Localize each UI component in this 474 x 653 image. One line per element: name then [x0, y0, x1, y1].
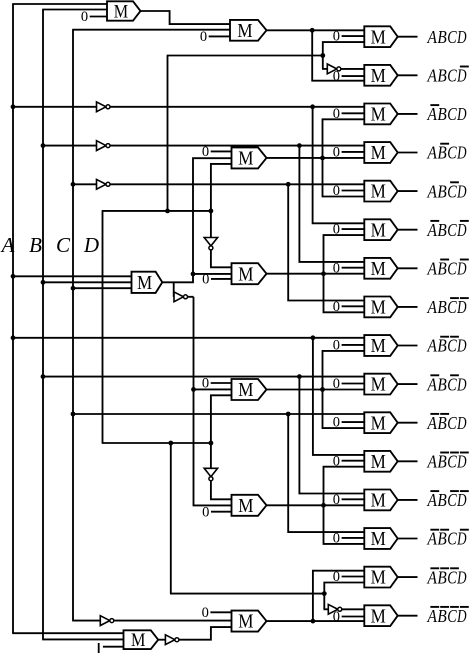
svg-text:0: 0 — [333, 260, 340, 276]
svg-text:0: 0 — [333, 415, 340, 431]
wire input bus D — [102, 211, 104, 443]
node output label 1 (ABCD) — [427, 27, 467, 47]
node M5 output junction — [320, 387, 325, 392]
majority gate M1 — [107, 1, 141, 22]
wire output U10 — [398, 383, 418, 385]
wire A branch — [13, 337, 364, 339]
svg-text:M: M — [238, 149, 253, 170]
label 0 input U12 — [333, 453, 365, 469]
wire A to M8 — [12, 632, 123, 634]
wire D up to M3 — [211, 164, 232, 211]
svg-text:C: C — [447, 27, 457, 47]
node output label 7 (ABCD-bar-BD) — [427, 259, 469, 279]
majority gate M5 — [232, 379, 267, 401]
wire majbar down to M6 — [194, 389, 232, 505]
wire M7 up to U15 — [313, 571, 364, 621]
wire D down to inverter N6 — [210, 211, 212, 238]
svg-text:D: D — [83, 233, 99, 257]
majority gate U2 — [364, 65, 397, 87]
node C branch junction — [286, 412, 291, 417]
svg-text:M: M — [371, 298, 386, 319]
svg-text:0: 0 — [200, 29, 207, 45]
svg-text:M: M — [114, 2, 128, 22]
svg-text:0: 0 — [333, 106, 340, 122]
svg-text:A: A — [427, 374, 438, 394]
svg-text:C: C — [447, 259, 457, 279]
label 0 input M2 — [200, 29, 230, 45]
svg-text:D: D — [456, 606, 466, 626]
wire maj to inverter N5 — [173, 282, 175, 297]
label 0 input U5 — [333, 183, 365, 199]
node B branch junction — [297, 374, 302, 379]
svg-text:0: 0 — [202, 605, 209, 621]
svg-text:D: D — [456, 181, 466, 201]
svg-text:D: D — [456, 259, 466, 279]
svg-text:M: M — [371, 606, 386, 627]
wire AB-bar to M7 — [179, 627, 232, 640]
wire output U15 — [398, 576, 418, 578]
node output label 12 (ABCD-bar-BCD) — [427, 452, 469, 472]
svg-text:M: M — [371, 491, 386, 512]
wire D down to inverter N4 — [322, 56, 327, 69]
svg-text:M: M — [371, 27, 386, 48]
wire output U1 — [398, 36, 418, 38]
svg-text:D: D — [456, 452, 466, 472]
svg-text:A: A — [427, 143, 438, 163]
wire output U14 — [398, 538, 418, 540]
svg-text:D: D — [456, 220, 466, 240]
svg-text:C: C — [447, 336, 457, 356]
wire input bus A — [12, 4, 107, 633]
label 0 input M1 — [81, 9, 107, 25]
majority gate U8 — [364, 297, 397, 319]
svg-text:C: C — [447, 220, 457, 240]
svg-text:D: D — [456, 143, 466, 163]
node maj junction — [191, 272, 196, 277]
wire N1 out — [110, 106, 364, 108]
wire N3 out — [110, 183, 364, 185]
svg-text:A: A — [427, 66, 438, 86]
node output label 9 (ABCD-bar-BC) — [427, 336, 467, 356]
inverter N2 (B-bar) — [97, 141, 111, 151]
wire D-bar to M6 top — [211, 481, 232, 500]
svg-text:C: C — [447, 452, 457, 472]
label 0 input M4 — [202, 272, 231, 288]
svg-text:0: 0 — [333, 338, 340, 354]
svg-text:M: M — [371, 336, 386, 357]
node output label 4 (ABCD-bar-B) — [427, 143, 467, 163]
svg-text:B: B — [437, 413, 446, 433]
wire M6 up branch — [324, 467, 365, 506]
svg-text:M: M — [238, 496, 253, 517]
majority gate M6 — [232, 495, 267, 517]
wire M3 down branch — [323, 158, 365, 197]
wire M6 output — [267, 504, 365, 506]
node output label 16 (ABCD-bar-ABCD) — [427, 606, 469, 626]
wire M3 output — [267, 157, 365, 159]
node majbar junction at M5 — [191, 387, 196, 392]
svg-text:C: C — [447, 66, 457, 86]
svg-text:A: A — [427, 181, 438, 201]
svg-text:B: B — [437, 374, 446, 394]
wire output U8 — [398, 306, 418, 308]
svg-text:B: B — [437, 529, 446, 549]
svg-text:M: M — [371, 105, 386, 126]
svg-text:0: 0 — [333, 531, 340, 547]
svg-text:M: M — [371, 143, 386, 164]
wire M8 output — [158, 639, 165, 641]
wire M4 output — [267, 273, 365, 275]
svg-text:0: 0 — [333, 299, 340, 315]
wire D down to inverter N7 — [210, 443, 212, 468]
svg-text:C: C — [447, 143, 457, 163]
svg-text:A: A — [427, 529, 438, 549]
wire maj input — [73, 287, 132, 289]
svg-text:B: B — [437, 297, 446, 317]
wire output U9 — [398, 345, 418, 347]
node maj input tap — [11, 274, 16, 279]
node M4 output junction — [321, 271, 326, 276]
node N2 tap — [41, 143, 46, 148]
node output label 14 (ABCD-bar-ABD) — [427, 529, 469, 549]
svg-text:B: B — [437, 567, 446, 587]
svg-text:0: 0 — [202, 504, 209, 520]
node B input label — [29, 233, 42, 257]
label 0 input M7 — [202, 605, 232, 621]
node M3 output junction — [320, 156, 325, 161]
svg-text:0: 0 — [333, 492, 340, 508]
svg-text:B: B — [437, 336, 446, 356]
node output label 11 (ABCD-bar-AB) — [427, 413, 467, 433]
svg-text:D: D — [456, 413, 466, 433]
wire D-bar to M4 top — [211, 250, 232, 267]
wire B branch — [43, 376, 364, 378]
wire M1 output to M2 — [141, 11, 231, 24]
label 0 input U14 — [333, 531, 365, 547]
wire D to U1 — [323, 42, 365, 55]
wire output U7 — [398, 267, 418, 269]
node C lower tap — [71, 412, 76, 417]
wire D up to M5 — [211, 395, 232, 443]
inverter N1 (A-bar) — [97, 102, 111, 112]
wire C branch — [73, 413, 364, 415]
node N3 branch — [286, 182, 291, 187]
label 0 input U6 — [333, 222, 365, 238]
svg-text:B: B — [437, 490, 446, 510]
svg-text:C: C — [447, 181, 457, 201]
svg-text:M: M — [238, 612, 253, 633]
svg-text:A: A — [427, 104, 438, 124]
inverter N6 (D-bar for M4) — [204, 238, 217, 250]
svg-text:D: D — [456, 567, 466, 587]
label 0 input M5 — [202, 376, 232, 392]
node D side junction top — [209, 209, 214, 214]
node B lower tap — [41, 374, 46, 379]
wire C down to gate — [288, 414, 364, 532]
svg-text:C: C — [56, 233, 71, 257]
svg-text:M: M — [137, 273, 152, 294]
majority gate U12 — [364, 451, 397, 473]
wire maj up to M3 — [193, 158, 232, 274]
majority gate U5 — [364, 181, 397, 203]
node N3 tap — [71, 182, 76, 187]
wire bus to inverter N1 — [13, 106, 97, 108]
inverter N7 (D-bar for M6) — [204, 468, 217, 480]
wire D-bar to U2 — [341, 68, 365, 70]
majority gate U17 maj(A,B,C) — [132, 272, 163, 294]
node output label 5 (ABCD-bar-C) — [427, 181, 467, 201]
wire output U11 — [398, 422, 418, 424]
wire maj input — [43, 281, 132, 283]
svg-text:0: 0 — [333, 609, 340, 625]
node N1 branch — [310, 104, 315, 109]
node D riser junction — [165, 209, 170, 214]
majority gate U9 — [364, 335, 397, 357]
svg-text:A: A — [427, 606, 438, 626]
wire M7 output — [267, 620, 365, 622]
node M6 output junction — [321, 503, 326, 508]
label 0 input U13 — [333, 492, 365, 508]
svg-text:B: B — [29, 233, 42, 257]
svg-text:B: B — [437, 27, 446, 47]
label 0 input U3 — [333, 106, 365, 122]
majority gate U6 — [364, 219, 397, 241]
svg-text:M: M — [371, 182, 386, 203]
svg-text:A: A — [0, 233, 15, 257]
svg-text:M: M — [371, 375, 386, 396]
wire D to U15 — [324, 583, 364, 594]
svg-text:M: M — [131, 631, 145, 651]
svg-text:A: A — [427, 27, 438, 47]
node A branch junction — [311, 335, 316, 340]
svg-text:B: B — [437, 259, 446, 279]
wire M4 down branch — [324, 274, 365, 313]
svg-text:0: 0 — [333, 222, 340, 238]
svg-text:M: M — [238, 380, 253, 401]
node A input label — [0, 233, 15, 257]
wire M4 up branch — [324, 235, 365, 274]
label 1 input M8 — [99, 643, 124, 653]
svg-text:M: M — [371, 66, 386, 87]
wire M5 output — [267, 389, 365, 391]
svg-text:M: M — [238, 264, 253, 285]
label 0 input U7 — [333, 260, 365, 276]
node D junction at gates 15-16 — [322, 591, 327, 596]
wire input bus C — [72, 30, 230, 621]
wire N3 down branch — [288, 184, 364, 300]
node A lower tap — [11, 335, 16, 340]
svg-text:0: 0 — [81, 9, 88, 25]
wire output U4 — [398, 152, 418, 154]
label 0 input U1 — [333, 29, 365, 45]
wire M5 up branch — [323, 351, 365, 390]
node output label 8 (ABCD-bar-CD) — [427, 297, 469, 317]
inverter N4 (D-bar top) — [327, 64, 341, 74]
svg-text:M: M — [371, 220, 386, 241]
wire D riser to top — [167, 56, 323, 211]
label 0 input U15 — [333, 569, 365, 585]
wire N2 down branch — [299, 146, 364, 262]
svg-text:D: D — [456, 297, 466, 317]
svg-text:B: B — [437, 66, 446, 86]
majority gate U15 — [364, 567, 397, 589]
majority gate U11 — [364, 412, 397, 434]
svg-text:A: A — [427, 297, 438, 317]
inverter N5 (maj-bar) — [174, 292, 188, 302]
svg-text:M: M — [371, 568, 386, 589]
node N1 tap — [11, 104, 16, 109]
svg-text:0: 0 — [202, 272, 209, 288]
svg-text:M: M — [371, 529, 386, 550]
wire D top branch — [102, 210, 211, 212]
wire M2 output ABC to gate U1 — [267, 29, 365, 31]
svg-text:B: B — [437, 606, 446, 626]
inverter N3 (C-bar) — [97, 179, 111, 189]
node N2 branch — [297, 143, 302, 148]
majority gate U1 — [364, 26, 397, 48]
wire majbar down — [188, 297, 194, 390]
wire output U3 — [398, 113, 418, 115]
wire output U13 — [398, 499, 418, 501]
svg-text:C: C — [447, 413, 457, 433]
svg-text:C: C — [447, 567, 457, 587]
label 0 input U2 — [333, 69, 365, 85]
wire N2 out — [110, 145, 364, 147]
wire D-bar to U16 — [342, 608, 365, 610]
svg-text:C: C — [447, 104, 457, 124]
svg-text:B: B — [437, 104, 446, 124]
svg-text:A: A — [427, 220, 438, 240]
wire N1 down branch — [313, 107, 365, 224]
node output label 10 (ABCD-bar-AC) — [427, 374, 467, 394]
wire ABC branch to U2 — [312, 30, 364, 80]
node output label 15 (ABCD-bar-ABC) — [427, 567, 467, 587]
wire bus to inverter N2 — [43, 145, 97, 147]
wire B to M8 — [42, 638, 123, 640]
node output label 2 (ABCD-bar-D) — [427, 66, 469, 86]
svg-text:D: D — [456, 374, 466, 394]
label 0 input U11 — [333, 415, 365, 431]
node ABC junction — [310, 28, 315, 33]
svg-text:C: C — [447, 606, 457, 626]
svg-text:0: 0 — [202, 376, 209, 392]
wire D down to inverter N8 — [324, 594, 329, 610]
wire bus to inverter N3 — [73, 183, 97, 185]
node output label 3 (ABCD-bar-A) — [427, 104, 467, 124]
wire maj output — [162, 274, 193, 282]
wire output U5 — [398, 190, 418, 192]
wire maj input — [13, 275, 132, 277]
majority gate M3 — [232, 147, 267, 169]
svg-text:B: B — [437, 181, 446, 201]
majority gate U14 — [364, 528, 397, 550]
svg-text:C: C — [447, 297, 457, 317]
svg-text:D: D — [456, 104, 466, 124]
majority gate U4 — [364, 142, 397, 164]
svg-text:D: D — [456, 66, 466, 86]
wire B down to gate — [299, 377, 364, 494]
svg-text:0: 0 — [333, 183, 340, 199]
svg-text:0: 0 — [333, 453, 340, 469]
inverter N9 (C-bar bottom) — [100, 616, 114, 626]
svg-text:0: 0 — [333, 145, 340, 161]
majority gate U10 — [364, 374, 397, 396]
svg-text:0: 0 — [333, 29, 340, 45]
svg-text:0: 0 — [333, 376, 340, 392]
node D bottom junction 2 — [209, 441, 214, 446]
svg-text:B: B — [437, 452, 446, 472]
wire output U2 — [398, 74, 418, 76]
majority gate M4 — [232, 263, 267, 285]
svg-text:A: A — [427, 413, 438, 433]
wire M3 up branch — [323, 119, 365, 158]
label 0 input M6 — [202, 504, 231, 520]
label 0 input U4 — [333, 145, 365, 161]
majority gate U7 — [364, 258, 397, 280]
node M7 output junction — [311, 619, 316, 624]
wire M6 down branch — [324, 505, 365, 544]
svg-text:M: M — [371, 259, 386, 280]
inverter N8 (D-bar bottom) — [328, 604, 342, 614]
svg-text:B: B — [437, 143, 446, 163]
svg-text:A: A — [427, 452, 438, 472]
majority gate M2 — [230, 20, 267, 42]
wire C-bar to M7 — [114, 620, 232, 622]
svg-text:C: C — [447, 490, 457, 510]
majority gate M8 — [124, 630, 159, 651]
svg-text:D: D — [456, 529, 466, 549]
wire output U6 — [398, 229, 418, 231]
node maj input tap — [71, 286, 76, 291]
wire M5 down branch — [323, 390, 365, 429]
wire D dropper — [170, 443, 324, 594]
label 0 input U16 — [333, 609, 365, 625]
svg-text:M: M — [237, 21, 252, 42]
svg-text:A: A — [427, 336, 438, 356]
majority gate U13 — [364, 490, 397, 512]
node output label 6 (ABCD-bar-AD) — [427, 220, 469, 240]
node D bottom junction 1 — [168, 441, 173, 446]
majority gate U16 — [364, 605, 397, 627]
label 0 input U9 — [333, 338, 365, 354]
inverter N10 (nor output) — [165, 635, 179, 645]
svg-text:D: D — [456, 336, 466, 356]
label 0 input U8 — [333, 299, 365, 315]
svg-text:0: 0 — [202, 144, 209, 160]
svg-text:C: C — [447, 529, 457, 549]
svg-text:A: A — [427, 490, 438, 510]
label 0 input M3 — [202, 144, 232, 160]
svg-text:A: A — [427, 567, 438, 587]
node output label 13 (ABCD-bar-ACD) — [427, 490, 469, 510]
majority gate M7 — [232, 611, 267, 633]
wire maj right to M4 — [193, 273, 232, 275]
label 0 input U10 — [333, 376, 365, 392]
majority gate U3 — [364, 104, 397, 126]
svg-text:M: M — [371, 413, 386, 434]
wire A down to gate — [313, 338, 364, 455]
wire input bus B — [42, 10, 107, 640]
node maj input tap — [41, 280, 46, 285]
wire majbar to M5 — [194, 388, 232, 390]
node C input label — [56, 233, 71, 257]
svg-text:D: D — [456, 490, 466, 510]
wire output U12 — [398, 460, 418, 462]
svg-text:0: 0 — [333, 69, 340, 85]
wire output U16 — [398, 615, 418, 617]
svg-text:A: A — [427, 259, 438, 279]
node D input label — [83, 233, 99, 257]
